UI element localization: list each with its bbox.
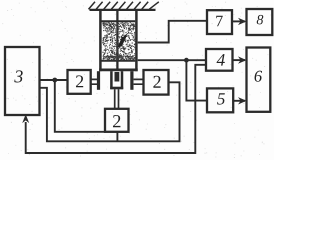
container divider top (102, 20, 136, 22)
label 6 (255, 71, 262, 82)
label 2 bottom (113, 115, 120, 127)
wire container to box4 (138, 59, 206, 61)
left hanger bar (97, 71, 100, 90)
ceiling hatching (89, 2, 159, 9)
junction dot 2 (184, 58, 189, 63)
piston rod (116, 11, 118, 69)
label 4 (217, 54, 225, 66)
wire box2 bottom rod down (116, 132, 118, 142)
arrow 5 to 6 (233, 100, 245, 102)
container divider bottom (102, 60, 136, 62)
cup left wall (110, 71, 113, 89)
label 3 (14, 70, 22, 82)
wire arrow net: box4 lower input to box3 bottom arrow (26, 65, 206, 153)
label 1 (specimen) (118, 34, 128, 48)
box 4 (206, 49, 233, 71)
box 2 left (68, 70, 91, 94)
container left wall (99, 11, 102, 72)
right stub double line (134, 79, 144, 84)
label 2 right (153, 76, 160, 88)
box 8 (247, 9, 273, 35)
box 5 (207, 88, 233, 112)
wire 3 to 2 (40, 79, 68, 81)
cup right wall (121, 71, 124, 89)
piston block inside cup (115, 72, 120, 82)
wire dot2 branch down to box5 (186, 60, 207, 100)
left stub double line (91, 79, 97, 84)
wire 3 stub loop to right sensor (40, 82, 180, 141)
box 6 (247, 48, 271, 112)
wire container to box7 (138, 21, 207, 43)
cup bottom (110, 87, 123, 90)
label 7 (216, 16, 222, 26)
ceiling line (90, 9, 156, 11)
junction dot 1 (52, 78, 57, 83)
label 5 (217, 93, 225, 104)
arrowhead up into box3 (22, 114, 29, 123)
box 2 right (144, 70, 169, 95)
box 2 bottom (105, 109, 129, 132)
arrowhead into box8 (238, 18, 247, 25)
paper noise (2, 1, 271, 157)
arrowhead into box6 bottom (238, 97, 247, 104)
arrow 7 to 8 (232, 20, 245, 22)
label 2 left (76, 75, 83, 87)
arrow 4 to 6 (233, 59, 246, 61)
box 3 (5, 47, 40, 115)
container bottom (99, 69, 138, 72)
double rod to vibrator (115, 89, 119, 109)
box 7 (207, 10, 232, 34)
wire dot1 branch down to box2 bottom (55, 80, 106, 132)
stipple granular medium (102, 23, 136, 61)
label 8 (257, 15, 264, 24)
right hanger bar (130, 71, 133, 90)
container right wall (135, 11, 138, 72)
arrowhead into box6 top (238, 56, 247, 63)
